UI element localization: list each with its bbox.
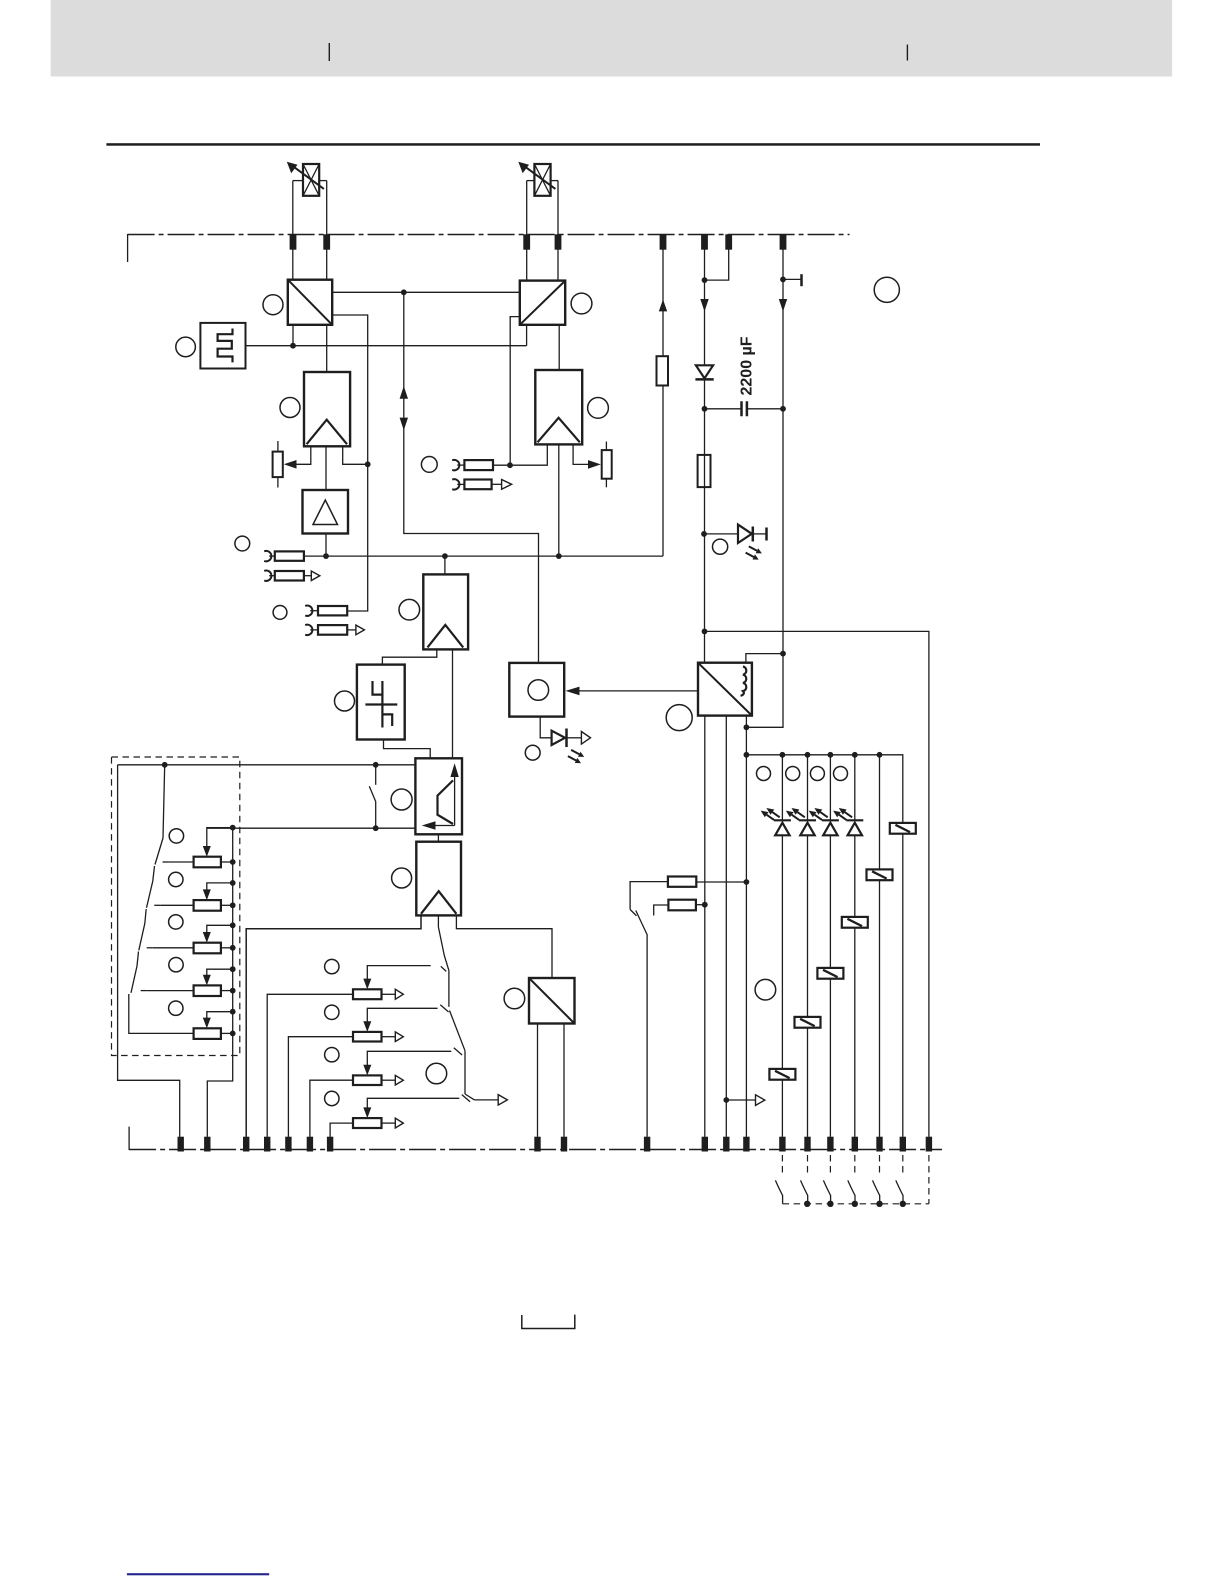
isolator U5 box <box>529 978 575 1024</box>
output 1 resistor <box>275 571 304 581</box>
bottom terminal bar B1 <box>178 1137 184 1152</box>
fault output wire <box>726 1099 755 1101</box>
relay coil K3 body <box>842 917 868 928</box>
controller A3 box <box>423 574 468 649</box>
bottom terminal bar B7 <box>327 1137 333 1152</box>
solenoid valve Y2 cross <box>534 164 550 196</box>
label circle for U5 <box>504 988 525 1009</box>
bottom terminal bar B12 <box>723 1137 729 1152</box>
label circle P2 <box>325 1005 339 1019</box>
LED V3 direction triangle <box>581 732 590 745</box>
setpoint pot P4 body <box>353 1118 382 1128</box>
setpoint pot P2 left wire <box>288 1037 353 1137</box>
wire A2 bottom to setpoint bus <box>558 444 560 556</box>
node bypass upper at switch <box>373 762 379 768</box>
wire U4 to current source arrow <box>579 690 698 692</box>
option pot K4 left wire <box>147 990 194 992</box>
node K5 right <box>230 1031 236 1037</box>
label circle K2 <box>169 872 183 886</box>
option pot K5 right wire <box>221 1032 233 1034</box>
input 1 resistor <box>275 551 304 560</box>
solenoid valve Y1 body <box>303 164 319 196</box>
wire valve Y1 right lead <box>326 181 328 280</box>
valve Y1 stub right <box>319 180 327 182</box>
top boundary left corner <box>127 234 129 262</box>
node relay rail start <box>744 752 750 758</box>
relay contact arm 3 <box>823 1180 830 1203</box>
current source circle glyph <box>528 680 549 701</box>
wire U2 to A2 <box>558 325 560 370</box>
node bus / triangle box <box>323 553 329 559</box>
label circle for A4 <box>392 868 412 888</box>
selector chain segment 3 <box>464 1051 466 1094</box>
driver A1 chevron <box>307 420 347 445</box>
option pot K4 right wire <box>221 990 233 992</box>
LED V3 tail wire <box>567 737 582 739</box>
node contact 3 <box>827 1201 833 1207</box>
fuse F1 through wire <box>704 455 706 487</box>
status LED 1 light arrow 1 <box>766 808 779 817</box>
terminal bar T3 (valve2 wire a) <box>523 234 530 249</box>
bottom terminal bar B4 <box>264 1137 270 1152</box>
node K2 right <box>230 902 236 908</box>
label circle status LED 2 <box>786 767 800 781</box>
protection diode V1 triangle <box>696 365 713 378</box>
relay contact drop 6 dashed <box>902 1155 904 1174</box>
ramp glyph up arrowhead <box>450 763 458 777</box>
status LED 3 light arrow 2 <box>809 811 822 820</box>
solenoid valve Y2 body <box>534 164 550 196</box>
node K3 feed <box>230 922 236 928</box>
wire U1 right tap <box>332 315 368 611</box>
valve Y2 stub left <box>527 180 535 182</box>
node bypass upper left <box>162 762 168 768</box>
option pot K4 feed arrowhead <box>203 975 211 986</box>
solenoid valve Y1 adjust arrowhead <box>287 162 298 174</box>
solenoid valve Y1 cross <box>303 164 319 196</box>
bottom terminal bar B14 <box>779 1137 785 1152</box>
option pot K1 body <box>194 857 221 868</box>
wire valve Y1 left lead <box>292 181 294 280</box>
output 1 socket <box>264 571 271 581</box>
option pot K3 feed arrowhead <box>203 932 211 943</box>
wire U4 output c lower <box>745 755 747 1137</box>
setpoint pot P3 feed arrowhead <box>363 1065 371 1076</box>
label circle K4 <box>169 958 183 972</box>
header gray bar <box>51 0 1172 77</box>
wire option left rail <box>118 765 180 1137</box>
bottom boundary chain line (dash-dot) <box>129 1149 942 1151</box>
R2 stub bottom <box>605 479 607 488</box>
ramp element box <box>415 758 462 834</box>
resistor R4 right wire <box>696 904 705 906</box>
option pot K4 body <box>194 985 221 996</box>
setpoint pot P4 left wire <box>330 1123 353 1137</box>
node R4 junction <box>702 902 708 908</box>
selector chain stub from A4 <box>437 915 439 927</box>
bottom terminal bar B19 <box>900 1137 906 1152</box>
node rail LED2 <box>805 752 811 758</box>
option switch arm 1 <box>155 838 163 865</box>
input 3 wire <box>493 464 510 466</box>
option module dashed enclosure <box>112 757 240 1056</box>
setpoint pot P3 out wire <box>382 1079 396 1081</box>
current source box <box>509 663 564 717</box>
relay coil K2 diagonal <box>872 871 887 878</box>
wire current source to LED V3 <box>540 717 551 738</box>
LED V3 cathode bar <box>565 729 568 748</box>
down arrowhead on L3 <box>779 299 787 312</box>
output 3 resistor <box>464 480 491 490</box>
node cap right <box>780 406 786 412</box>
option contact tick 1 <box>163 861 169 863</box>
setpoint pot P2 out wire <box>382 1036 396 1038</box>
capacitor C1 wire right <box>747 408 783 410</box>
label circle for A1 <box>280 398 300 418</box>
ramp glyph left arrowhead <box>422 821 436 829</box>
wire K6 to terminal <box>781 1080 783 1137</box>
option pot K4 feed <box>207 969 233 977</box>
selector arm 3 to output <box>465 1094 475 1100</box>
label circle for U4 <box>666 705 692 731</box>
relay contact arm 5 <box>873 1180 880 1203</box>
node rail relay K2 <box>877 752 883 758</box>
selector chain segment 2 <box>448 971 450 1007</box>
relay coil K5 body <box>795 1017 821 1028</box>
R2 stub top <box>605 442 607 451</box>
status LED 4 cathode bar <box>846 819 863 821</box>
wire K2 to terminal <box>879 880 881 1137</box>
label circle status LED 4 <box>834 767 848 781</box>
selector arm 1 <box>438 927 449 971</box>
option switch arm 2 <box>147 881 153 908</box>
wire A2 out-left <box>510 444 547 465</box>
output 3 wire <box>492 483 502 485</box>
status LED 2 triangle <box>800 823 814 836</box>
option pot K1 feed <box>207 828 233 849</box>
converter U2 box (square with diagonal) <box>520 281 565 325</box>
relay coil K6 diagonal <box>775 1071 790 1078</box>
ramp glyph rising line <box>438 780 454 824</box>
wire U5 out b <box>563 1024 565 1137</box>
option pot K2 feed <box>207 883 233 892</box>
node feedback right <box>507 462 513 468</box>
driver A2 chevron <box>538 418 580 443</box>
LED V2 light arrow 2 <box>746 553 759 560</box>
right distribution rail <box>705 631 929 1137</box>
option wire to pot K5 <box>129 994 194 1033</box>
bottom terminal bar B15 <box>804 1137 810 1152</box>
status LED 3 line upper <box>829 755 831 821</box>
capacitor C1 plates <box>742 401 747 416</box>
title rule <box>106 143 1040 146</box>
label circle for step element <box>335 691 355 711</box>
label circle LED V3 <box>525 745 540 760</box>
driver A2 box <box>535 370 582 444</box>
bottom terminal bar B5 <box>285 1137 291 1152</box>
arrowhead into current source <box>566 687 580 696</box>
status LED 1 line lower to relay K6 <box>781 835 783 1069</box>
label circle for U1 <box>263 295 283 315</box>
LED V2 triangle <box>738 525 752 543</box>
option chain segment 2 <box>153 866 155 881</box>
relay contact drop 5 dashed <box>879 1155 881 1174</box>
node K2 feed <box>230 880 236 886</box>
setpoint pot P3 body <box>353 1075 382 1085</box>
node rail LED3 <box>828 752 834 758</box>
node feedback left <box>365 461 371 467</box>
label circle input pair 2 <box>273 606 287 620</box>
terminal bar T2 (valve1 wire b) <box>323 234 330 249</box>
node contact 2 <box>804 1201 810 1207</box>
wire A1 to limiter <box>325 446 327 490</box>
label circle LED V2 <box>713 539 728 554</box>
output 2 direction triangle <box>356 625 365 635</box>
wire U4 output b <box>725 716 727 1137</box>
setpoint pot P2 body <box>353 1032 382 1042</box>
option pot K2 left wire <box>160 904 193 906</box>
relay contact arm 2 <box>801 1180 808 1203</box>
header tick right <box>906 45 908 61</box>
node L2 to right rail <box>702 629 708 635</box>
option chain segment 4 <box>137 952 139 967</box>
bottom terminal bar B20 <box>926 1137 932 1152</box>
driver A1 box <box>304 372 350 446</box>
option contact tick 4 <box>141 990 147 992</box>
relay coil K5 diagonal <box>800 1019 815 1026</box>
termination stub bar <box>800 274 803 286</box>
node sensor wire to U1 <box>290 343 296 349</box>
fuse F1 body <box>698 455 711 487</box>
wire A3 bypass to ramp element <box>452 649 454 758</box>
wire U5 out a <box>537 1024 539 1137</box>
resistor R3 right wire <box>696 881 746 883</box>
setpoint pot P1 out wire <box>382 993 396 995</box>
relay contact common bus dashed <box>783 1203 929 1205</box>
node contact 5 <box>876 1201 882 1207</box>
wire U1 to U2 cross link <box>332 291 520 293</box>
input 3 socket <box>452 460 459 470</box>
wire U4 output c upper <box>745 716 747 755</box>
mode switch arm <box>636 911 648 936</box>
down arrowhead on L2 <box>700 299 708 312</box>
relay coil K4 diagonal <box>823 970 838 977</box>
status LED 2 line upper <box>807 755 809 821</box>
main setpoint bus <box>304 555 663 557</box>
setpoint pot P1 body <box>353 989 382 999</box>
option pot K1 left wire <box>169 861 194 863</box>
node converter output mid <box>744 724 750 730</box>
capacitor C1 wire left <box>705 408 742 410</box>
terminal bar T6 (supply +) <box>701 234 708 249</box>
resistor on binary input line <box>657 356 669 385</box>
label circle input pair 3 <box>421 457 437 473</box>
status LED 3 triangle <box>823 823 837 836</box>
wire A3 to step element <box>382 649 436 664</box>
node L2 sense tap <box>702 277 708 283</box>
option pot K3 left wire <box>153 947 194 949</box>
relay contact arm 1 <box>775 1180 782 1203</box>
bottom terminal bar B18 <box>876 1137 882 1152</box>
option contact tick 2 <box>154 904 160 906</box>
wire K3 to terminal <box>854 928 856 1137</box>
option pot K1 feed arrowhead <box>203 846 211 857</box>
setpoint pot P3 direction triangle <box>395 1075 403 1085</box>
wire valve Y2 left lead <box>526 181 528 281</box>
label circle for A2 <box>588 398 609 419</box>
status LED 4 light arrow 1 <box>839 808 852 817</box>
output 3 socket <box>452 479 459 489</box>
node rail LED1 <box>780 752 786 758</box>
termination stub wire <box>783 278 801 280</box>
status LED 3 light arrow 1 <box>814 808 827 817</box>
wire A2 out-right <box>573 444 588 464</box>
header tick left <box>328 43 330 61</box>
input 2 resistor <box>318 606 347 615</box>
input 2 socket <box>305 605 312 615</box>
status LED 2 light arrow 2 <box>786 811 799 820</box>
label circle top right <box>874 277 899 302</box>
output 1 wire <box>304 575 311 577</box>
bottom terminal bar B2 <box>204 1137 210 1152</box>
label circle for ramp element <box>391 789 412 810</box>
bottom terminal bar B6 <box>307 1137 313 1152</box>
wire U2 left tap <box>510 317 520 466</box>
label circle for selector <box>426 1063 447 1084</box>
option contact tick 3 <box>147 947 153 949</box>
sense hook wire <box>705 250 729 281</box>
node K1 right <box>230 859 236 865</box>
setpoint pot P1 feed wire <box>367 966 430 981</box>
svg-text:2200 µF: 2200 µF <box>739 336 756 395</box>
bottom boundary left corner <box>128 1127 130 1150</box>
terminal bar T1 (valve1 wire a) <box>290 234 297 249</box>
converter U2 diagonal <box>521 282 564 324</box>
relay coil K1 diagonal <box>895 825 910 832</box>
status LED 3 cathode bar <box>822 819 839 821</box>
setpoint pot P2 direction triangle <box>395 1032 403 1042</box>
figure bracket symbol <box>522 1315 575 1329</box>
label circle status LED 3 <box>810 767 824 781</box>
selector contact tick B <box>440 1005 448 1012</box>
up arrowhead on binary input line <box>659 299 667 311</box>
top boundary chain line (dash-dot) <box>128 234 850 236</box>
status LED 2 light arrow 1 <box>792 808 805 817</box>
setpoint pot P1 left wire <box>267 994 353 1137</box>
wire option bus down-left <box>207 1033 232 1137</box>
node fault output tap <box>723 1097 729 1103</box>
status LED 1 light arrow 2 <box>761 811 774 820</box>
arrowhead into R1 <box>284 460 297 469</box>
status LED 1 cathode bar <box>774 819 791 821</box>
input 1 socket <box>264 551 271 561</box>
option pot K3 feed <box>207 925 233 934</box>
bottom terminal bar B10 <box>644 1137 650 1152</box>
R1 stub bottom <box>277 477 279 487</box>
option pot K5 feed arrowhead <box>203 1018 211 1029</box>
wire A4 out-right to isolator U5 <box>456 915 552 978</box>
resistor R3 body <box>668 877 696 887</box>
output stage A4 chevron <box>421 891 456 914</box>
selector contact tick C <box>454 1048 462 1055</box>
solenoid valve Y2 adjust arrow shaft <box>523 165 555 189</box>
wire valve Y2 right lead <box>557 181 559 281</box>
position sensor E box <box>200 323 245 369</box>
option switch arm 4 <box>131 966 137 993</box>
binary input line with resistor <box>662 250 664 557</box>
relay contact drop 4 dashed <box>854 1155 856 1174</box>
selector contact tick A <box>441 966 446 971</box>
limiter triangle glyph <box>313 500 338 525</box>
node K3 right <box>230 945 236 951</box>
arrowhead into R2 <box>588 460 601 469</box>
status LED 4 triangle <box>848 823 862 836</box>
supply line L3 upper <box>782 250 784 654</box>
relay contact arm 4 <box>848 1180 855 1203</box>
relay contact arm 6 <box>896 1180 903 1203</box>
option chain segment 3 <box>145 909 146 924</box>
node K4 feed <box>230 966 236 972</box>
wire A1 out-right <box>343 446 368 464</box>
setpoint pot P3 left wire <box>310 1080 353 1137</box>
footer rule blue <box>127 1573 269 1575</box>
node bus / driver A2 <box>556 553 562 559</box>
terminal bar T5 (binary input line) <box>660 234 667 249</box>
label circle for U2 <box>571 293 592 314</box>
option pot K5 feed <box>207 1012 233 1020</box>
setpoint pot P4 feed wire <box>367 1098 459 1110</box>
wire U4 output a <box>704 716 706 1137</box>
up arrowhead on bidirectional line <box>400 386 408 399</box>
node K5 feed <box>230 1009 236 1015</box>
node K1 feed <box>230 825 236 831</box>
wire U2 bottom-left to sensor wire <box>526 325 528 346</box>
setpoint pot P4 out wire <box>382 1122 396 1124</box>
bottom terminal bar B8 <box>534 1137 540 1152</box>
LED V2 termination bar <box>765 528 768 541</box>
wire U1 to A1 <box>326 325 328 372</box>
label circle input pair 1 <box>235 536 250 551</box>
bidirectional signal line <box>404 292 539 663</box>
converter U1 diagonal <box>289 281 331 324</box>
label circle for sensor E <box>176 337 196 357</box>
ramp bypass switch lower stub <box>375 802 377 829</box>
valve Y2 stub right <box>551 180 558 182</box>
limiter box with triangle <box>303 490 349 534</box>
wire ramp to output stage A4 <box>437 834 439 841</box>
node LED V2 tap <box>701 531 707 537</box>
option pot K1 right wire <box>221 861 233 863</box>
selector output direction triangle <box>498 1095 507 1106</box>
option pot K2 right wire <box>221 904 233 906</box>
status LED 3 line lower to relay K4 <box>829 835 831 968</box>
relay contact drop 3 dashed <box>829 1155 831 1174</box>
node L3 termination tap <box>780 277 786 283</box>
setpoint pot P2 feed wire <box>367 1008 437 1023</box>
solenoid valve Y2 adjust arrowhead <box>518 162 529 174</box>
status LED 1 triangle <box>775 823 789 836</box>
setpoint pot P4 direction triangle <box>395 1118 403 1128</box>
fault output direction triangle <box>756 1095 765 1106</box>
setpoint pot P1 direction triangle <box>395 989 403 999</box>
output 2 resistor <box>318 625 347 635</box>
bottom terminal bar B16 <box>827 1137 833 1152</box>
DC converter U4 box <box>698 663 752 716</box>
relay coil K1 body <box>890 823 916 834</box>
output 1 direction triangle <box>311 571 320 581</box>
label circle status LED 1 <box>757 767 771 781</box>
wire L3 down jog <box>746 654 783 728</box>
